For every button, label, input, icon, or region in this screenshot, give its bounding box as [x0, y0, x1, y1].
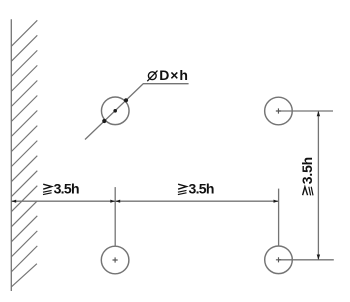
- arrowhead pointing right at left extension: [110, 200, 115, 203]
- wall hatching: [11, 20, 37, 287]
- leader dot lower intersection: [102, 119, 106, 123]
- arrowhead pointing left at left extension: [115, 200, 120, 203]
- hole circle top-right: [265, 97, 293, 125]
- label >=3.5h middle: [178, 180, 214, 196]
- hole circle bottom-right: [265, 246, 293, 274]
- hole center dot: [113, 109, 117, 113]
- arrowhead at wall (left): [11, 200, 16, 203]
- dimension line wall to first hole: [11, 200, 115, 202]
- crosshair top-right hole: [113, 108, 282, 262]
- svg-text:3.5h: 3.5h: [189, 180, 214, 196]
- label diameter D x h: [147, 67, 189, 83]
- vertical dimension line right: [317, 111, 319, 260]
- crosshair bottom-right hole: [276, 257, 281, 262]
- leader line to hole: [85, 84, 189, 140]
- crosshair bottom-left hole: [113, 257, 118, 262]
- hole circle top-left: [101, 97, 129, 125]
- extension line left hole column: [114, 187, 116, 246]
- extension line right hole column: [278, 189, 280, 246]
- hole circle bottom-left: [101, 246, 129, 274]
- label >=3.5h vertical: [299, 157, 315, 195]
- svg-text:3.5h: 3.5h: [54, 180, 79, 196]
- arrowhead down on vertical dimension: [317, 255, 320, 260]
- leader dot upper intersection: [124, 98, 128, 102]
- extension line top-right hole: [278, 110, 333, 112]
- wall edge line: [10, 19, 12, 291]
- extension line bottom-right hole: [279, 259, 334, 261]
- arrowhead pointing right at right extension: [274, 200, 279, 203]
- svg-text:D×h: D×h: [159, 67, 189, 83]
- label >=3.5h left: [43, 180, 79, 196]
- arrowhead up on vertical dimension: [317, 111, 320, 116]
- dimension line first to second hole: [115, 200, 278, 202]
- svg-text:3.5h: 3.5h: [299, 157, 315, 184]
